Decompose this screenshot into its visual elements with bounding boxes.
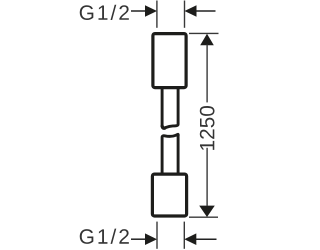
bottom extension line right (183, 222, 185, 249)
extension line 1250 top (189, 32, 219, 34)
bottom extension line left (156, 222, 158, 249)
wire: top dimension tail right (196, 10, 216, 12)
label 1250 (rotated) (200, 106, 215, 150)
dimension line 1250 lower segment (206, 148, 208, 206)
hose upper segment with break squiggle (162, 87, 178, 128)
fitting nut upper (hose connector) (153, 34, 186, 88)
hose break blob lower-left (162, 126, 165, 128)
dimension arrowhead up (200, 34, 214, 46)
top extension line right (184, 1, 186, 28)
fitting nut lower (152, 174, 186, 216)
wire: bottom dimension tail right (196, 238, 217, 240)
dimension arrowhead down (199, 206, 215, 217)
wire: top dimension tail left (131, 10, 147, 12)
hose lower segment with break squiggle (162, 134, 178, 172)
extension line 1250 bottom (189, 216, 218, 218)
bottom dimension arrowhead left (145, 233, 157, 245)
top dimension arrowhead left (145, 5, 157, 17)
label G1/2 (bottom) (80, 229, 129, 244)
label G1/2 (top) (80, 5, 129, 20)
top extension line left (156, 1, 158, 28)
wire: bottom dimension tail left (131, 238, 147, 240)
top dimension arrowhead right (185, 5, 197, 17)
bottom dimension arrowhead right (184, 233, 196, 245)
dimension line 1250 upper segment (206, 45, 208, 103)
